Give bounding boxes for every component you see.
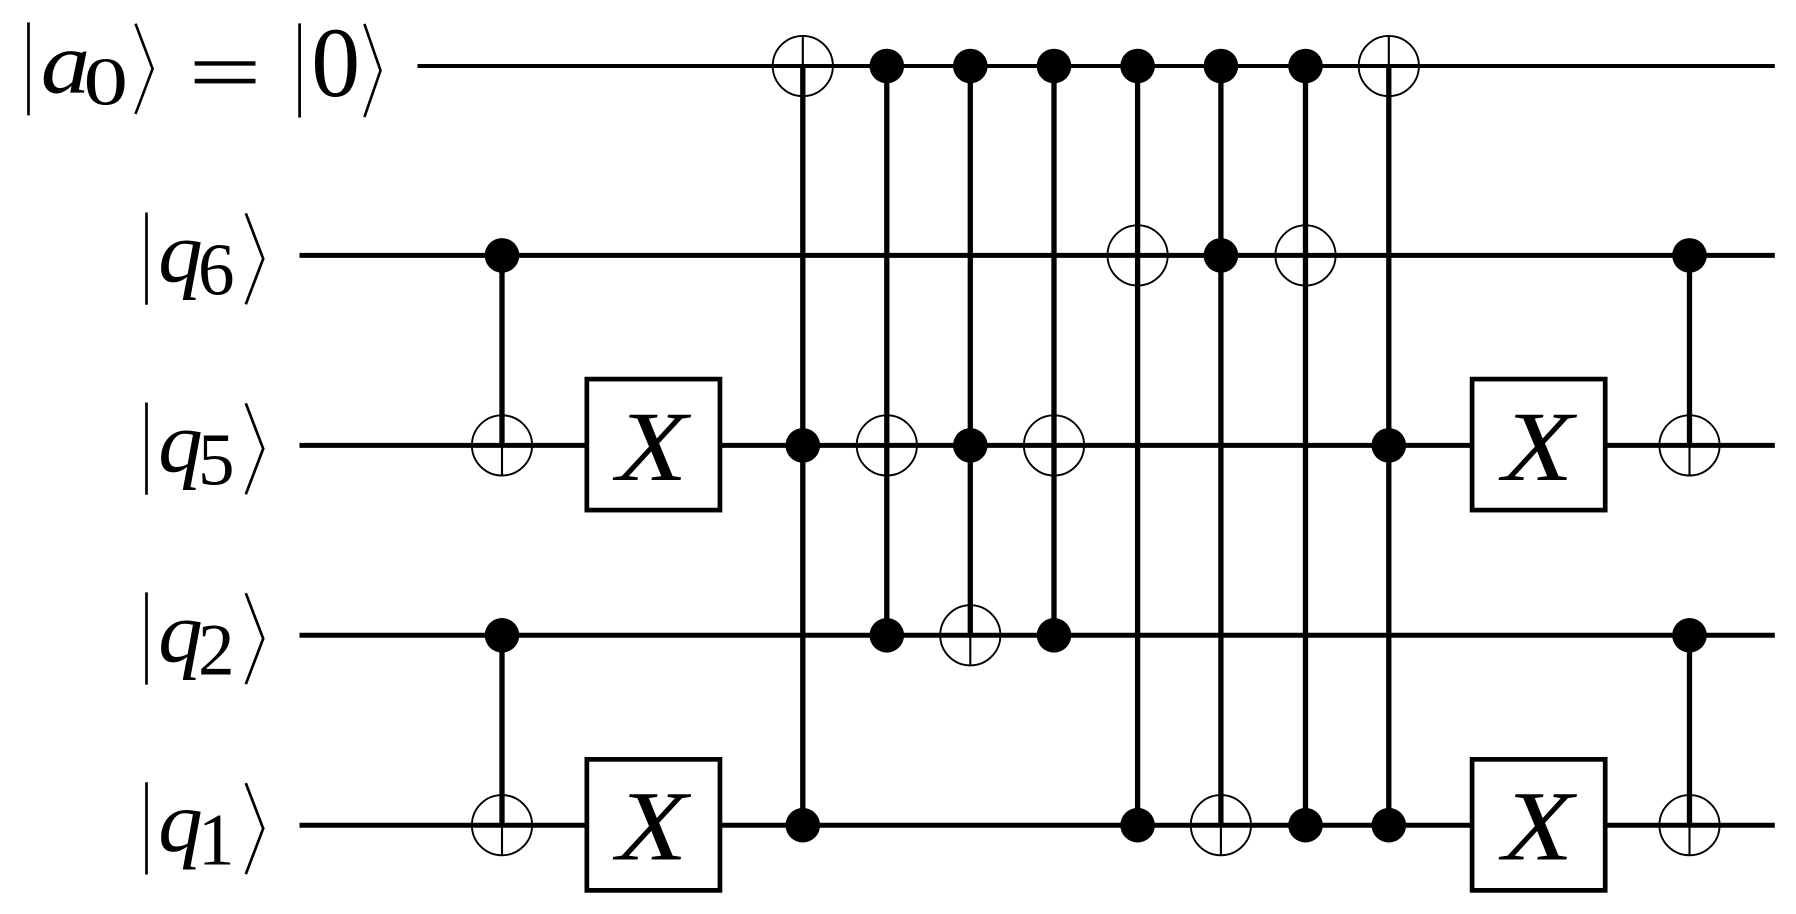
svg-text:0: 0 bbox=[83, 46, 128, 120]
target q5 col5 bbox=[1024, 415, 1084, 475]
target a0 col9 bbox=[1359, 36, 1419, 96]
control q6 col10 bbox=[1672, 238, 1707, 273]
target q5 col10 bbox=[1659, 415, 1719, 475]
target q1 col1 bbox=[472, 795, 532, 855]
svg-text:6: 6 bbox=[198, 228, 235, 311]
wire q6 bbox=[300, 253, 1775, 258]
control q5 col9 bbox=[1372, 428, 1407, 463]
target q1 col10 bbox=[1659, 795, 1719, 855]
svg-text:0: 0 bbox=[311, 8, 360, 118]
svg-text:X: X bbox=[1498, 392, 1578, 501]
control a0 col7 bbox=[1204, 49, 1239, 84]
control a0 col3 bbox=[870, 49, 905, 84]
svg-text:q: q bbox=[158, 396, 203, 491]
label ket q1 bbox=[147, 775, 264, 880]
target a0 col2 bbox=[773, 36, 833, 96]
wire col9 link bbox=[1386, 66, 1391, 825]
label ket q6 bbox=[147, 206, 264, 311]
control a0 col6 bbox=[1120, 49, 1155, 84]
control a0 col8 bbox=[1288, 49, 1323, 84]
svg-text:1: 1 bbox=[198, 798, 235, 881]
control q5 col4 bbox=[953, 428, 988, 463]
control a0 col4 bbox=[953, 49, 988, 84]
wire a0 bbox=[418, 64, 1775, 68]
target q6 col8 bbox=[1275, 225, 1335, 285]
target q1 col7 bbox=[1191, 795, 1251, 855]
target q5 col1 bbox=[472, 415, 532, 475]
gate X1 on q5 box bbox=[587, 379, 720, 510]
svg-text:5: 5 bbox=[198, 418, 235, 501]
wire col8 link bbox=[1303, 66, 1308, 825]
control a0 col5 bbox=[1037, 49, 1072, 84]
wire cnot q2-q1 link right bbox=[1687, 635, 1692, 825]
control q2 col5 bbox=[1037, 618, 1072, 653]
svg-text:q: q bbox=[158, 206, 203, 301]
svg-text:q: q bbox=[158, 775, 203, 870]
control q1 col6 bbox=[1120, 808, 1155, 843]
wire col7 link bbox=[1218, 66, 1223, 825]
wire col3 link bbox=[884, 66, 889, 635]
svg-text:q: q bbox=[158, 586, 203, 681]
control q1 col8 bbox=[1288, 808, 1323, 843]
control q2 col10 bbox=[1672, 618, 1707, 653]
label ket a0 equals ket 0 bbox=[29, 8, 381, 120]
wire col4 link bbox=[968, 66, 973, 635]
gate X2 on q1 box bbox=[1472, 759, 1605, 890]
label ket q5 bbox=[147, 396, 264, 501]
gate X1 on q1 box bbox=[587, 759, 720, 890]
target q5 col3 bbox=[857, 415, 917, 475]
svg-text:X: X bbox=[1498, 772, 1578, 881]
target q2 col4 bbox=[940, 605, 1000, 665]
wire q1 bbox=[300, 823, 1775, 828]
control q1 col2 bbox=[786, 808, 821, 843]
control q1 col9 bbox=[1372, 808, 1407, 843]
wire col2 link bbox=[800, 66, 805, 825]
gate X2 on q5 box bbox=[1472, 379, 1605, 510]
wire cnot q6-q5 link bbox=[499, 255, 504, 445]
wire q2 bbox=[300, 633, 1775, 638]
control q2 col1 bbox=[485, 618, 520, 653]
svg-text:X: X bbox=[612, 772, 692, 881]
svg-text:X: X bbox=[612, 392, 692, 501]
wire q5 bbox=[300, 443, 1775, 448]
control q6 col7 bbox=[1204, 238, 1239, 273]
wire col6 link bbox=[1135, 66, 1140, 825]
wire cnot q2-q1 link bbox=[499, 635, 504, 825]
svg-text:2: 2 bbox=[198, 608, 235, 691]
control q6 col1 bbox=[485, 238, 520, 273]
label ket q2 bbox=[147, 586, 264, 691]
control q2 col3 bbox=[870, 618, 905, 653]
target q6 col6 bbox=[1108, 225, 1168, 285]
wire cnot q6-q5 link right bbox=[1687, 255, 1692, 445]
wire col5 link bbox=[1051, 66, 1056, 635]
control q5 col2 bbox=[786, 428, 821, 463]
